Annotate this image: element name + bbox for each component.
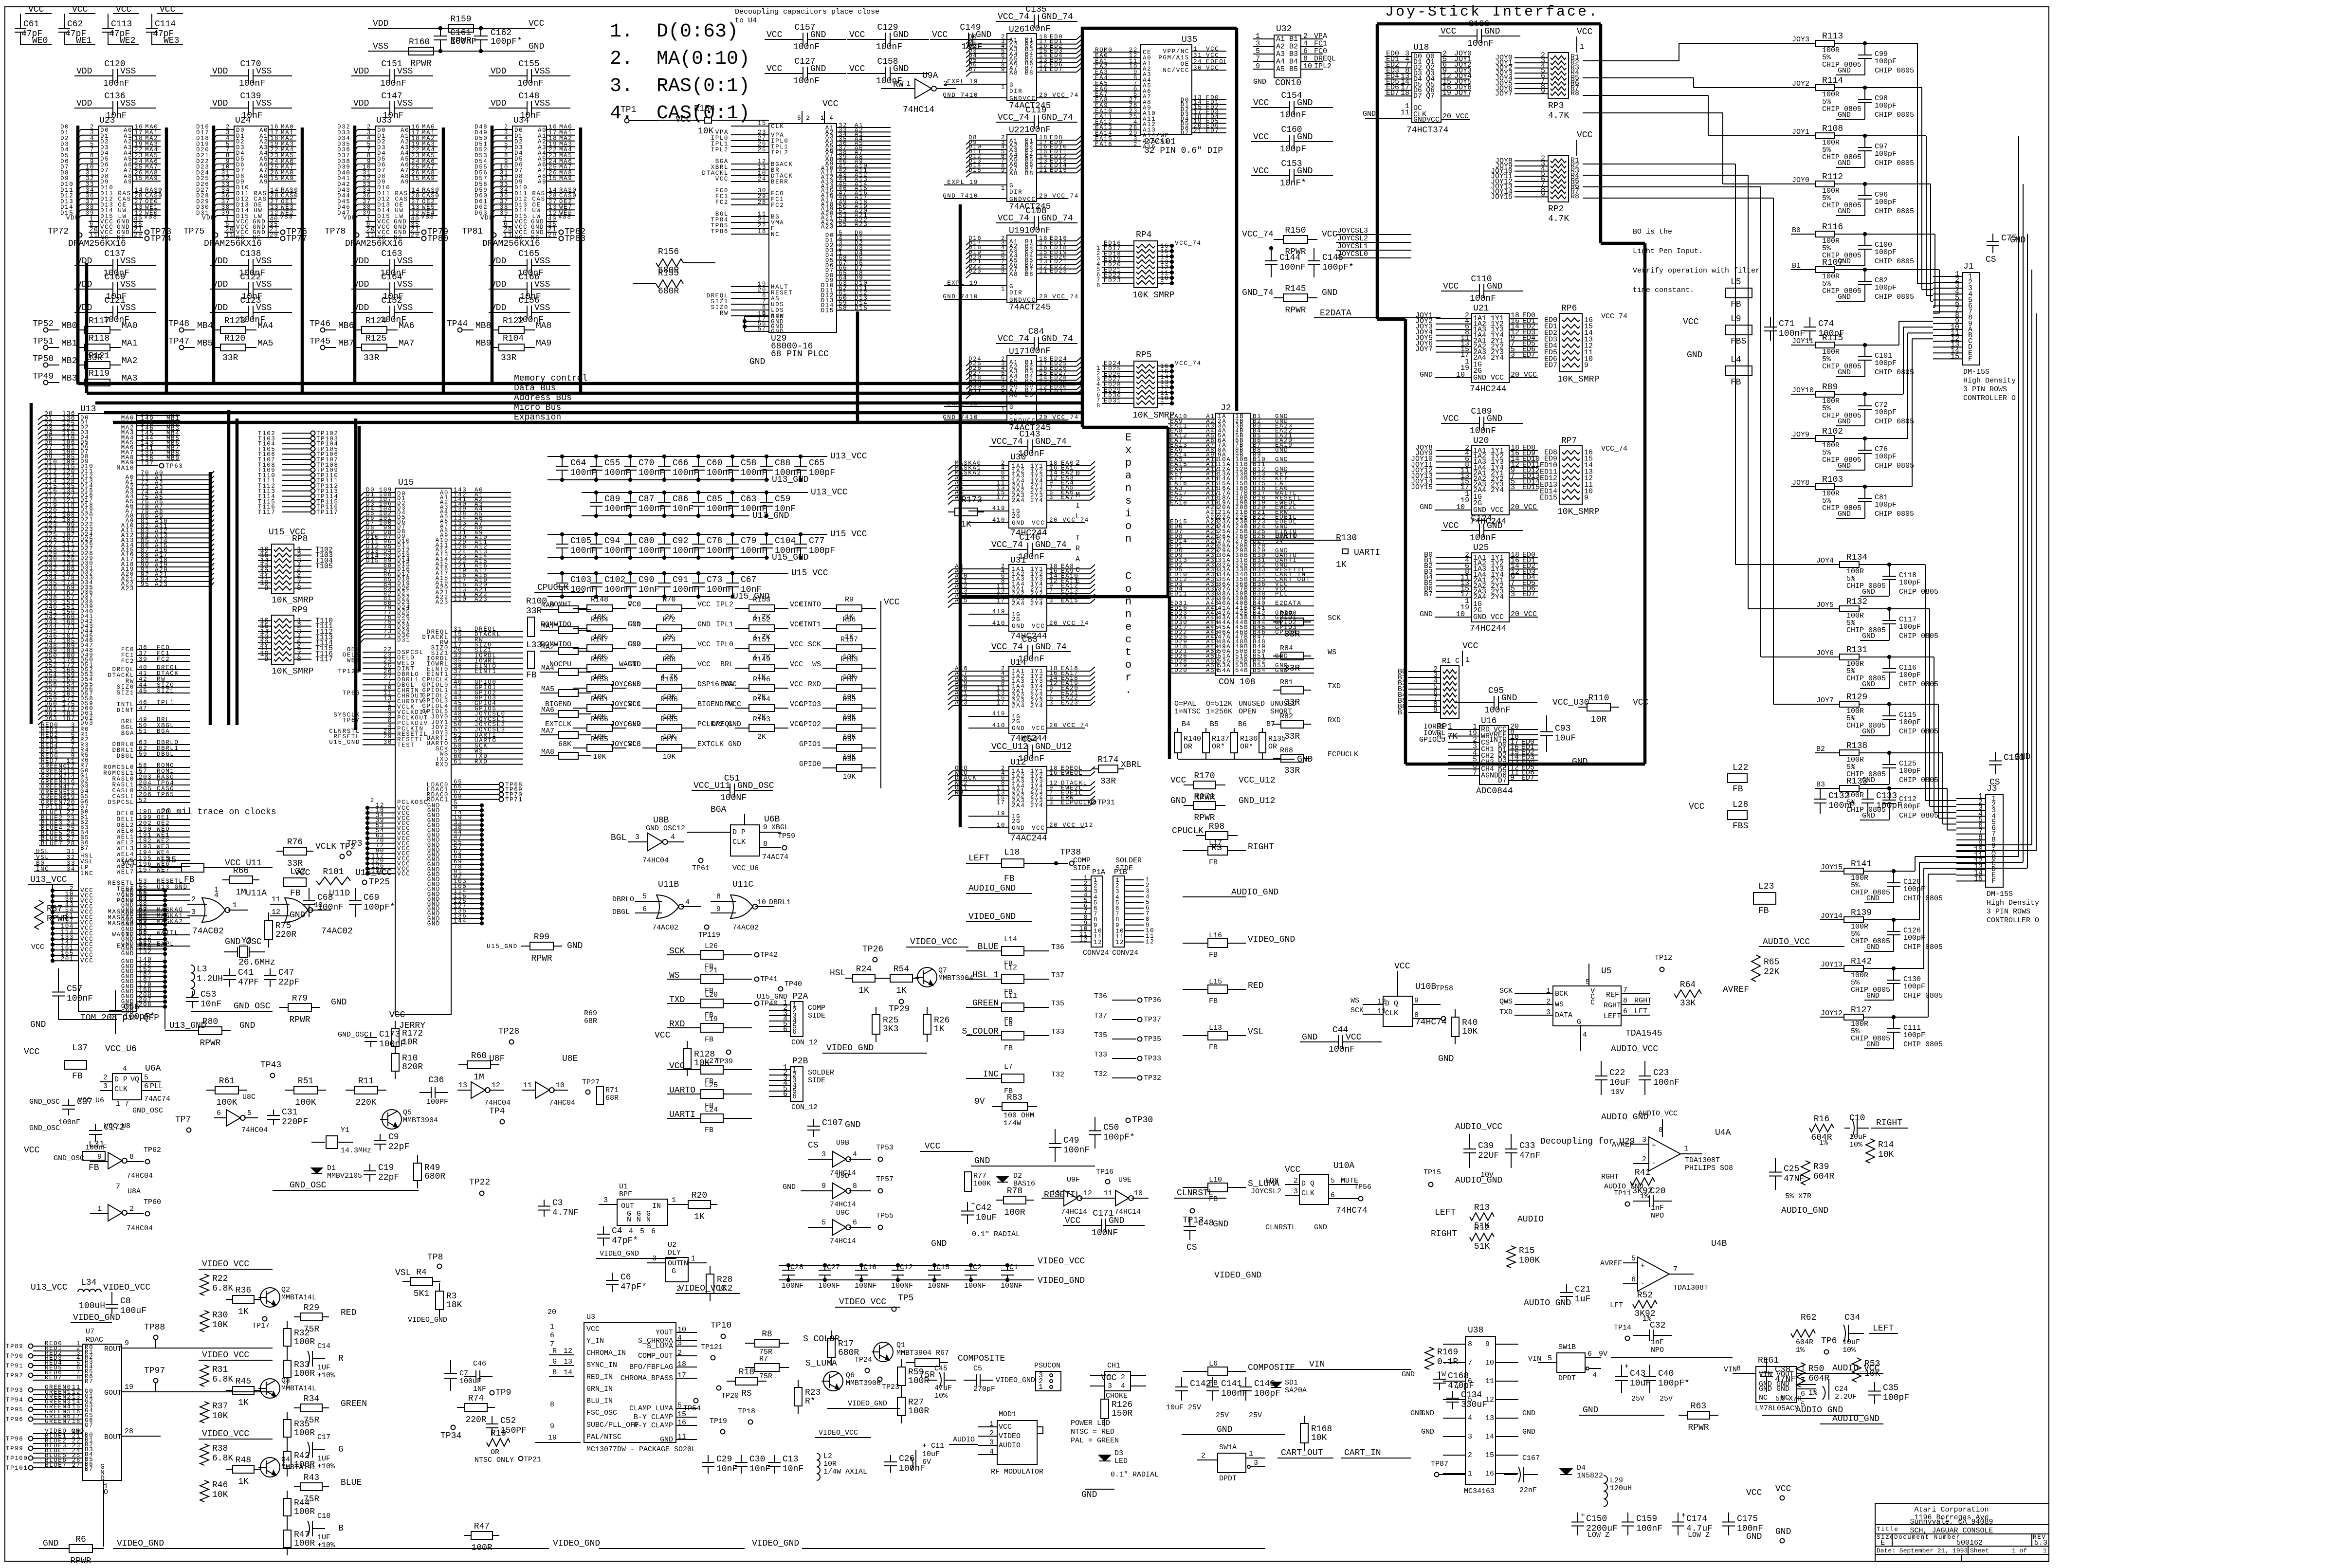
svg-text:GND: GND xyxy=(427,920,440,927)
svg-text:D15: D15 xyxy=(366,558,379,565)
svg-text:R147: R147 xyxy=(591,636,608,644)
svg-text:VCC: VCC xyxy=(529,19,545,29)
svg-text:TP81: TP81 xyxy=(462,227,483,237)
svg-text:74HC14: 74HC14 xyxy=(903,105,934,115)
capacitor C109 100nF xyxy=(1441,407,1523,436)
svg-text:71: 71 xyxy=(383,633,392,640)
svg-text:VCC: VCC xyxy=(697,660,711,669)
svg-text:DIR: DIR xyxy=(1009,88,1022,95)
svg-text:9: 9 xyxy=(1541,190,1545,199)
capacitor C53 10nF xyxy=(186,990,221,1009)
capacitor C95 100nF xyxy=(1456,686,1537,715)
svg-text:JOYCSL1: JOYCSL1 xyxy=(1337,242,1368,251)
svg-text:T117: T117 xyxy=(258,509,275,516)
svg-text:100nF: 100nF xyxy=(1024,346,1051,356)
capacitor C139 10nF decoupling xyxy=(210,91,292,121)
capacitor C119 100nF xyxy=(996,106,1077,135)
svg-text:R165: R165 xyxy=(591,735,608,744)
svg-text:15: 15 xyxy=(758,120,766,127)
svg-text:4.7K: 4.7K xyxy=(1548,214,1569,224)
svg-text:A23: A23 xyxy=(855,221,868,228)
svg-text:GND: GND xyxy=(1012,725,1025,732)
bus horizontal under 245s xyxy=(1082,426,1168,429)
svg-text:A9: A9 xyxy=(538,179,547,185)
svg-text:JOYCSL2: JOYCSL2 xyxy=(610,720,641,729)
resistor R166 10K pull on EXTCLK xyxy=(545,715,641,741)
test point TP26 xyxy=(862,945,883,962)
capacitor C133 100pF xyxy=(1861,788,1902,814)
svg-text:30: 30 xyxy=(383,739,392,746)
resistor R70 2K pull on FC0 xyxy=(628,596,711,621)
IC U3 MC13077DW body xyxy=(584,1313,696,1454)
svg-text:C65: C65 xyxy=(809,458,824,468)
svg-text:VCC: VCC xyxy=(766,30,783,40)
svg-text:FC2: FC2 xyxy=(121,658,134,665)
resistor R170 RPWR VCC_U12 xyxy=(1170,771,1276,802)
net label RIGHT output xyxy=(1871,1118,1908,1128)
svg-text:U23: U23 xyxy=(99,116,115,126)
resistor R127 100R with capacitor C111 100pF on JOY12 xyxy=(1820,1005,1943,1049)
svg-text:VCC_74: VCC_74 xyxy=(991,437,1023,447)
svg-text:TP44: TP44 xyxy=(447,319,468,329)
resistor R119 33R MB3 to MA3 xyxy=(33,369,137,386)
U10A pins xyxy=(1251,1165,1441,1232)
resistor R28 1K2 xyxy=(706,1266,732,1301)
svg-text:B8: B8 xyxy=(1025,70,1034,76)
svg-text:33R: 33R xyxy=(222,353,238,363)
J2 A-side pins xyxy=(1168,413,1231,674)
svg-text:VCC_74: VCC_74 xyxy=(1175,360,1202,367)
svg-text:R161: R161 xyxy=(591,695,608,704)
svg-text:MA1: MA1 xyxy=(122,339,137,348)
svg-text:R160: R160 xyxy=(409,37,430,47)
svg-text:28: 28 xyxy=(758,199,766,206)
net label VIDEO_VCC center xyxy=(675,1284,740,1294)
svg-text:2G: 2G xyxy=(1012,616,1021,623)
resistor R82 33R to RXD xyxy=(1273,712,1341,742)
svg-text:R70: R70 xyxy=(662,596,675,604)
resistor pack RP3 4.7K xyxy=(1495,27,1593,121)
svg-text:35: 35 xyxy=(139,941,147,948)
svg-text:100pF: 100pF xyxy=(809,546,835,556)
svg-text:100nF: 100nF xyxy=(517,79,544,89)
svg-text:C92: C92 xyxy=(673,536,688,546)
svg-text:PGM/A15: PGM/A15 xyxy=(1158,55,1189,61)
capacitor C4 47pF* xyxy=(597,1226,638,1246)
capacitor C127 100nF xyxy=(765,57,846,86)
svg-text:U13_VCC: U13_VCC xyxy=(830,452,867,461)
resistor R65 22K xyxy=(1752,955,1780,982)
bus thick joystick left lower xyxy=(1404,319,1407,764)
resistor R83 100 OHM 1/4W xyxy=(974,1093,1037,1128)
svg-text:D15: D15 xyxy=(855,305,868,312)
svg-text:U32: U32 xyxy=(1276,24,1292,34)
svg-text:MB8: MB8 xyxy=(475,321,491,331)
svg-text:2Y4: 2Y4 xyxy=(1030,497,1043,504)
connector PSUCON xyxy=(1034,1362,1061,1391)
svg-text:9: 9 xyxy=(1541,87,1545,95)
svg-text:XBRL: XBRL xyxy=(1121,760,1142,770)
svg-text:C89: C89 xyxy=(604,494,620,504)
test point TP38 xyxy=(1024,848,1081,866)
svg-text:VCC: VCC xyxy=(849,30,865,40)
svg-text:VCC: VCC xyxy=(766,64,783,74)
resistor R8 75R S_COLOR xyxy=(745,1330,840,1356)
svg-text:A2 B2: A2 B2 xyxy=(1276,43,1298,51)
svg-text:C149: C149 xyxy=(960,23,981,33)
svg-text:VDD: VDD xyxy=(212,280,228,290)
svg-text:10nF*: 10nF* xyxy=(1280,179,1306,188)
net label UARTO xyxy=(1251,532,1341,540)
svg-text:28: 28 xyxy=(67,840,75,847)
resistor R148 10K pull on ROMHI xyxy=(549,596,641,621)
svg-text:EA16: EA16 xyxy=(1095,141,1113,148)
svg-text:A23: A23 xyxy=(155,581,168,588)
svg-text:R173: R173 xyxy=(961,495,982,505)
VCC rail for GPIO pull resistors xyxy=(881,598,900,788)
svg-text:WAITL: WAITL xyxy=(619,660,641,669)
U23 right control pins xyxy=(132,187,163,217)
svg-text:16: 16 xyxy=(1049,770,1058,777)
svg-text:MB9: MB9 xyxy=(166,455,180,462)
svg-text:MB5: MB5 xyxy=(197,339,213,348)
U13 right control pins xyxy=(103,644,190,949)
U21 pins xyxy=(1415,311,1538,382)
svg-text:D15: D15 xyxy=(821,308,834,314)
IC U30 74HC244 body xyxy=(1009,453,1047,538)
resistor R169 0.1R 1W xyxy=(1425,1347,1458,1379)
svg-text:R154: R154 xyxy=(694,104,715,114)
resistor R63 RPWR xyxy=(1679,1402,1718,1433)
svg-text:55: 55 xyxy=(839,221,847,228)
resistor R103 100R with capacitor C81 100pF on JOY8 xyxy=(1791,475,1914,518)
ferrite bead L17 FB to RIGHT xyxy=(1183,839,1274,867)
U24 right control pins xyxy=(268,187,298,217)
svg-text:R106: R106 xyxy=(660,695,678,704)
svg-text:RP9: RP9 xyxy=(292,605,308,615)
svg-text:10: 10 xyxy=(1303,62,1312,71)
svg-text:R146: R146 xyxy=(753,675,770,684)
resistor pack RP8 10K_SMRP xyxy=(258,534,333,605)
svg-text:GND_U12: GND_U12 xyxy=(1035,742,1072,752)
svg-text:FC2: FC2 xyxy=(715,199,729,206)
svg-text:SCK: SCK xyxy=(808,640,821,649)
U13 left pins D0-D63 xyxy=(38,410,93,727)
svg-text:EA7: EA7 xyxy=(1061,494,1074,501)
flip-flop U6B 74AC74 xyxy=(646,805,795,873)
svg-text:DIR: DIR xyxy=(1009,290,1022,296)
svg-text:R145: R145 xyxy=(1285,284,1306,294)
svg-text:C63: C63 xyxy=(741,494,756,504)
GND rail for option straps xyxy=(1178,755,1313,765)
net label VIDEO_GND U1 xyxy=(596,1250,676,1258)
capacitor C56 100pF* xyxy=(109,990,155,1034)
svg-text:GND: GND xyxy=(1012,825,1025,832)
svg-text:C91: C91 xyxy=(673,575,688,585)
svg-text:R174: R174 xyxy=(1097,755,1118,765)
capacitor C154 100nF xyxy=(1251,91,1333,120)
svg-text:TP63: TP63 xyxy=(165,463,183,470)
svg-text:NC: NC xyxy=(771,231,780,238)
resistor R162 10K pull on NOCPU xyxy=(549,656,641,681)
inverter U9E 74HC14 xyxy=(1101,1176,1149,1216)
svg-text:MA4: MA4 xyxy=(257,321,273,331)
resistor R160 RPWR between VSS and GND xyxy=(368,37,544,69)
connector P1B CONV24 xyxy=(1112,857,1154,957)
svg-text:74HC244: 74HC244 xyxy=(1470,384,1507,394)
svg-text:T117: T117 xyxy=(315,656,333,664)
wire JOY0-3 to RC filters xyxy=(1583,43,1791,184)
svg-text:Joy-Stick Interface.: Joy-Stick Interface. xyxy=(1385,4,1599,20)
net label GND power xyxy=(1182,1425,1285,1435)
transistor Q2 red driver stage xyxy=(199,1259,356,1386)
capacitor C110 100nF xyxy=(1441,274,1523,304)
bus thick joystick outline top xyxy=(1377,22,1601,26)
net label CART_OUT xyxy=(1277,1448,1333,1458)
svg-text:74HCT374: 74HCT374 xyxy=(1406,126,1448,135)
svg-text:ECPUCLK: ECPUCLK xyxy=(1061,800,1092,806)
resistor R123 33R MB4 to MA4 xyxy=(168,316,273,333)
svg-text:R124: R124 xyxy=(365,316,386,326)
capacitor C167 22nF xyxy=(1504,1454,1540,1495)
bus vertical pair under DRAM 470 xyxy=(227,410,231,725)
svg-text:VCC_74: VCC_74 xyxy=(1601,312,1627,321)
svg-text:9: 9 xyxy=(1256,62,1260,71)
svg-text:A5 B5: A5 B5 xyxy=(1276,65,1298,73)
svg-text:A9: A9 xyxy=(259,179,268,185)
resistor R56 10K pull on GPIO2 xyxy=(799,715,876,741)
svg-text:TP65: TP65 xyxy=(157,791,174,798)
ferrite bead L21 FB on WS xyxy=(667,966,778,995)
inductor L3 1.2UH xyxy=(191,965,223,996)
resistor R129 100R with capacitor C115 100pF on JOY7 xyxy=(1815,693,1938,736)
svg-text:R109: R109 xyxy=(660,675,678,684)
transistor Q7 MMBT3904 xyxy=(915,966,973,987)
svg-text:C163: C163 xyxy=(381,249,402,259)
svg-text:C170: C170 xyxy=(240,59,261,69)
svg-text:R144: R144 xyxy=(753,695,770,704)
svg-text:VCC_74: VCC_74 xyxy=(1175,240,1202,247)
capacitor C42 10uF 0.1 radial xyxy=(931,1200,1020,1249)
svg-text:MB0: MB0 xyxy=(61,321,77,331)
svg-text:C70: C70 xyxy=(639,458,654,468)
svg-text:SIZ1: SIZ1 xyxy=(117,690,134,696)
svg-text:C88: C88 xyxy=(775,458,790,468)
svg-text:DIR: DIR xyxy=(1009,189,1022,196)
svg-text:100nF: 100nF xyxy=(1279,263,1306,273)
U15 left control pins xyxy=(329,646,428,748)
svg-text:VDD: VDD xyxy=(212,67,228,76)
test point TP87 xyxy=(1431,1460,1465,1477)
resistor R10 820R xyxy=(391,1046,423,1079)
ferrite bead L14 FB on BLUE xyxy=(966,935,1064,968)
svg-text:GND: GND xyxy=(121,950,134,957)
svg-text:FC0: FC0 xyxy=(628,601,641,609)
svg-text:A16: A16 xyxy=(1143,144,1156,150)
capacitor C150 2200uF LOW Z xyxy=(1571,1512,1618,1539)
svg-text:R8: R8 xyxy=(1570,192,1579,201)
U34 right address pins MA0-MA9 xyxy=(538,124,575,185)
svg-text:C154: C154 xyxy=(1281,91,1302,101)
U29 right pins A1-A23 xyxy=(821,122,891,231)
crystal Y1 14.3MHz xyxy=(311,1126,371,1155)
svg-text:U34: U34 xyxy=(513,116,529,126)
U34 right control pins xyxy=(547,187,577,217)
svg-text:T105: T105 xyxy=(315,562,333,570)
svg-text:GND_74: GND_74 xyxy=(1041,334,1073,344)
capacitor C69 100pF* xyxy=(290,888,395,920)
connector J3 DM-15S xyxy=(1956,784,2039,925)
U25 pins xyxy=(1420,551,1538,621)
svg-text:GPIO0: GPIO0 xyxy=(799,760,821,768)
svg-text:C108: C108 xyxy=(1025,206,1046,216)
svg-text:MB3: MB3 xyxy=(61,374,77,383)
net label AUDIO_VCC REG1 xyxy=(1820,1364,1883,1373)
NOR gate U11C 74AC02 xyxy=(711,880,791,932)
ferrite bead L12 FB on HSL_1 xyxy=(966,964,1064,996)
svg-text:U15_VCC: U15_VCC xyxy=(830,529,867,539)
svg-text:VDD: VDD xyxy=(76,67,92,76)
svg-text:20 VCC_74: 20 VCC_74 xyxy=(1039,193,1079,200)
U13 left pins HSL VSL LP INC xyxy=(34,848,93,877)
U15 left data pins D0-D31 xyxy=(360,487,410,644)
svg-text:C85: C85 xyxy=(707,494,722,504)
ferrite bead L27 FB on VCC xyxy=(667,1057,752,1086)
svg-text:TP83: TP83 xyxy=(565,234,585,244)
svg-text:U15_GND: U15_GND xyxy=(329,739,360,746)
capacitor C74 100pF xyxy=(1804,317,1844,341)
svg-text:NC: NC xyxy=(377,235,386,241)
resistor R84 33R to WS xyxy=(1273,644,1336,674)
svg-text:TP72: TP72 xyxy=(48,227,69,237)
svg-text:GND: GND xyxy=(1473,374,1486,382)
svg-text:VDD: VDD xyxy=(353,99,369,109)
resistor R101 network xyxy=(294,867,392,885)
svg-text:WS: WS xyxy=(812,660,821,669)
resistor R18 RS xyxy=(727,1367,766,1399)
bus horizontal Micro Bus xyxy=(104,411,1081,415)
U13 pin MA10 TP63 xyxy=(117,460,183,472)
ferrite bead L7 FB on INC xyxy=(966,1063,1064,1095)
svg-text:8: 8 xyxy=(1096,282,1101,289)
capacitor C39 22UF 10V xyxy=(1455,1122,1502,1179)
svg-text:C152: C152 xyxy=(381,296,402,306)
capacitor C107 CS xyxy=(807,1118,860,1150)
test point TP30 xyxy=(1126,1115,1153,1125)
resistor R52 3K92 1% xyxy=(1610,1291,1657,1323)
bus vertical left data spine xyxy=(76,131,80,383)
svg-text:ED7: ED7 xyxy=(1544,362,1557,370)
svg-text:68: 68 xyxy=(454,794,462,801)
resistor R64 33K AVREF xyxy=(1674,980,1749,1008)
resistor R66 1M xyxy=(222,866,259,897)
svg-text:BGA: BGA xyxy=(121,730,134,737)
resistor R117 33R MB0 to MA0 xyxy=(33,316,137,333)
capacitor C172 100nF xyxy=(29,1122,130,1152)
svg-text:MA2: MA2 xyxy=(122,356,137,366)
svg-text:100nF: 100nF xyxy=(67,994,93,1004)
svg-text:C129: C129 xyxy=(877,23,898,33)
svg-text:VCC: VCC xyxy=(1032,623,1045,630)
svg-text:A23: A23 xyxy=(121,585,134,592)
svg-text:MB2: MB2 xyxy=(61,356,77,366)
svg-text:U13_VCC: U13_VCC xyxy=(811,488,848,497)
svg-text:DSPCSL: DSPCSL xyxy=(108,799,134,806)
svg-text:100nF: 100nF xyxy=(1467,39,1494,49)
U13 left pins RED GREEN BLUE xyxy=(39,722,89,852)
svg-text:GND: GND xyxy=(697,620,711,629)
svg-text:U13_GND: U13_GND xyxy=(772,475,809,485)
svg-text:FC0: FC0 xyxy=(1314,47,1327,55)
svg-text:VSS: VSS xyxy=(373,42,388,52)
svg-text:R152: R152 xyxy=(753,616,770,624)
svg-text:NC: NC xyxy=(531,235,540,241)
svg-text:74ACT245: 74ACT245 xyxy=(1009,303,1051,312)
svg-text:D15: D15 xyxy=(968,167,982,174)
net label GND_OSC bottom rail xyxy=(273,1181,419,1190)
svg-text:C62: C62 xyxy=(67,19,83,29)
svg-text:R101: R101 xyxy=(323,867,344,877)
svg-text:RPWR: RPWR xyxy=(47,914,68,924)
svg-text:GNDVCC: GNDVCC xyxy=(1009,196,1036,203)
svg-text:VCC: VCC xyxy=(1443,414,1459,424)
svg-text:R122: R122 xyxy=(503,316,524,326)
connector P2A CON_12 xyxy=(757,992,825,1047)
svg-text:MA6: MA6 xyxy=(399,321,414,331)
decoupling capacitor row U13_VCC xyxy=(547,452,867,485)
svg-text:JOYCSL3: JOYCSL3 xyxy=(1337,227,1368,235)
ferrite bead L25 FB on UARTO xyxy=(667,1081,752,1110)
svg-text:A: A xyxy=(1076,555,1080,564)
resistor R104 33R MB9 to MA9 xyxy=(475,334,551,351)
capacitor C45 47uF 10% xyxy=(925,1365,956,1400)
svg-text:TP48: TP48 xyxy=(168,319,189,329)
svg-text:E2DATA: E2DATA xyxy=(1320,309,1351,318)
svg-text:GND: GND xyxy=(1012,623,1025,630)
svg-text:EXTCLK GND: EXTCLK GND xyxy=(697,740,741,748)
resistor pack RP2 4.7K xyxy=(1491,130,1593,224)
capacitor C75 CS xyxy=(1986,234,2026,265)
inverter U8C 74HC04 xyxy=(214,1109,268,1134)
net label VIDEO_GND Q7 xyxy=(822,1043,927,1053)
inverter U9D 74HC14 xyxy=(783,1172,894,1209)
net label GND_OSC oscillator rail xyxy=(191,1002,273,1011)
resistor R55 10K pull on GPIO3 xyxy=(799,695,876,721)
svg-text:U15_GND: U15_GND xyxy=(772,553,809,563)
svg-text:B8: B8 xyxy=(1025,170,1034,177)
VSL divider R4 5K1 R3 18K xyxy=(395,1253,462,1324)
net label AUDIO_VCC right xyxy=(1759,937,1844,947)
IC U25 74HC244 body xyxy=(1470,543,1509,634)
bottom rail VIDEO_GND right xyxy=(752,1539,1265,1549)
test point TP22 and capacitor C3 4.7NF xyxy=(469,1178,579,1218)
resistor R19 OR NTSC only xyxy=(474,1429,581,1464)
svg-text:WEL7: WEL7 xyxy=(117,869,134,875)
resistor R61 100K xyxy=(206,1076,255,1108)
net label CLNRSTL TP13 xyxy=(1174,1188,1226,1225)
U24 left data pins D16-D31 xyxy=(196,124,302,393)
svg-text:C147: C147 xyxy=(381,91,402,101)
IC REG1 LM78L05ACM body xyxy=(1724,1356,1820,1413)
svg-text:10K_SMRP: 10K_SMRP xyxy=(1132,291,1174,300)
svg-text:2A4: 2A4 xyxy=(1012,802,1025,809)
capacitor C62 47pF on WE1 xyxy=(58,5,95,46)
resistor R54 1K xyxy=(883,965,919,996)
svg-text:R9: R9 xyxy=(845,596,854,604)
inverter U9B 74HC14 xyxy=(808,1139,894,1177)
capacitor C106 100nF xyxy=(1439,19,1520,49)
svg-text:33R: 33R xyxy=(364,353,380,363)
